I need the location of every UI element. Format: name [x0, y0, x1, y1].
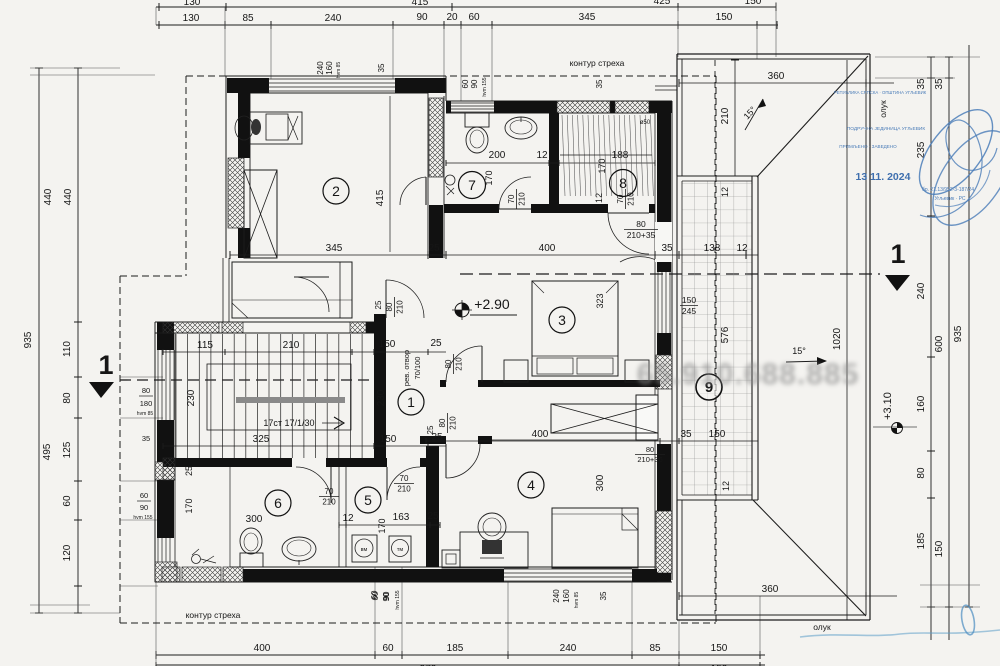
svg-text:25: 25	[428, 243, 440, 254]
dimension line top row1	[156, 6, 776, 8]
wall rooms56 north	[163, 458, 292, 467]
door room5 (leaf+arc)	[386, 467, 388, 500]
svg-text:345: 345	[579, 12, 596, 23]
svg-text:230: 230	[376, 389, 387, 406]
svg-text:150: 150	[934, 540, 945, 557]
dimension line top row2	[156, 24, 778, 26]
section line right (dash-dot)	[460, 273, 880, 275]
svg-text:12: 12	[720, 187, 730, 197]
svg-text:150: 150	[709, 429, 726, 440]
svg-text:150: 150	[716, 12, 733, 23]
svg-text:60: 60	[461, 79, 470, 88]
svg-text:210+35: 210+35	[627, 230, 656, 240]
svg-text:210: 210	[449, 416, 458, 430]
svg-text:hvm 155: hvm 155	[482, 77, 488, 96]
stairs railing box	[207, 364, 351, 430]
svg-text:90: 90	[416, 12, 428, 23]
door to terrace upper (arc)	[659, 222, 661, 262]
svg-text:210: 210	[720, 107, 731, 124]
svg-text:240: 240	[316, 61, 325, 75]
svg-text:150: 150	[379, 339, 396, 350]
svg-text:150: 150	[380, 434, 397, 445]
stamp ellipse 2	[917, 117, 1000, 239]
svg-text:160: 160	[916, 395, 927, 412]
svg-text:210: 210	[283, 340, 300, 351]
svg-text:15°: 15°	[742, 104, 759, 121]
svg-text:12: 12	[536, 150, 548, 161]
svg-text:440: 440	[43, 188, 54, 205]
svg-text:hvm 155: hvm 155	[395, 590, 401, 609]
roof dimension 360 top	[679, 82, 894, 84]
room6 partition line	[229, 467, 231, 567]
door label 70/210 room7	[507, 189, 527, 209]
bath dim line y162	[446, 162, 655, 164]
door nook (arc)	[294, 276, 329, 278]
svg-text:1020: 1020	[832, 327, 843, 350]
svg-text:400: 400	[532, 429, 549, 440]
svg-text:35: 35	[680, 429, 692, 440]
dimension line left inner	[77, 68, 79, 613]
svg-text:рев. отвор: рев. отвор	[402, 350, 411, 386]
svg-text:85: 85	[242, 13, 254, 24]
dimension line right col3	[968, 45, 970, 607]
roof top edge	[677, 53, 870, 55]
svg-text:935: 935	[23, 331, 34, 348]
desk room2	[250, 112, 302, 144]
bed room4	[552, 508, 638, 568]
svg-text:35: 35	[661, 243, 673, 254]
svg-text:400: 400	[254, 643, 271, 654]
svg-text:35: 35	[142, 434, 150, 443]
desk room4	[460, 532, 528, 568]
dimension line left outer 935	[38, 68, 40, 613]
svg-text:210+35: 210+35	[637, 455, 662, 464]
svg-text:120: 120	[62, 544, 73, 561]
svg-text:5: 5	[364, 492, 372, 508]
svg-text:600: 600	[934, 335, 945, 352]
svg-text:240: 240	[916, 282, 927, 299]
dryer room5	[389, 536, 411, 562]
nightstand room4	[442, 550, 460, 568]
door stair hall (arc)	[385, 280, 387, 318]
svg-text:hvm 85: hvm 85	[137, 411, 154, 417]
svg-text:70: 70	[400, 474, 409, 483]
svg-text:90: 90	[470, 79, 479, 88]
boiler room7	[445, 175, 455, 185]
door label 70/210 room8	[616, 189, 636, 209]
svg-text:240: 240	[552, 589, 561, 603]
svg-text:210: 210	[455, 357, 464, 371]
nightstand room3 right	[625, 360, 649, 382]
svg-text:35: 35	[595, 79, 604, 88]
svg-text:12: 12	[342, 513, 354, 524]
wall right mid	[657, 333, 671, 355]
svg-text:90: 90	[140, 503, 148, 512]
eave step line top right	[655, 89, 677, 91]
sink room7	[505, 117, 537, 139]
room circle 6	[265, 490, 291, 516]
sink room6	[282, 537, 316, 561]
svg-text:163: 163	[393, 512, 410, 523]
svg-text:4: 4	[527, 477, 535, 493]
wall right window	[657, 262, 671, 272]
svg-text:170: 170	[484, 170, 494, 185]
svg-text:200: 200	[489, 150, 506, 161]
roof bottom edge	[677, 619, 870, 621]
wardrobe room2 (X-box)	[244, 170, 277, 258]
svg-text:495: 495	[42, 443, 53, 460]
svg-text:170: 170	[184, 498, 194, 513]
washing machine room5	[352, 535, 377, 562]
svg-text:3: 3	[558, 312, 566, 328]
room circle 2	[323, 178, 349, 204]
svg-text:20: 20	[446, 12, 458, 23]
svg-text:150: 150	[682, 295, 696, 305]
svg-text:170: 170	[377, 518, 387, 533]
door room6 (leaf+arc)	[330, 467, 332, 503]
door label 80/210 corrA	[444, 354, 464, 374]
stamp signature swirl	[920, 120, 997, 217]
wall room5 east	[426, 446, 439, 567]
svg-text:110: 110	[62, 341, 73, 357]
svg-text:185: 185	[447, 643, 464, 654]
svg-text:210: 210	[397, 485, 411, 494]
terrace tile grid	[682, 181, 752, 495]
svg-text:325: 325	[253, 434, 270, 445]
svg-text:тм: тм	[397, 547, 404, 553]
svg-text:160: 160	[562, 589, 571, 603]
roof bottom dimension 360	[679, 595, 897, 597]
room circle 8	[610, 170, 637, 197]
svg-text:90: 90	[382, 592, 391, 601]
svg-text:60: 60	[468, 12, 480, 23]
svg-text:60: 60	[370, 590, 379, 599]
svg-text:35: 35	[934, 78, 945, 90]
svg-text:олук: олук	[878, 100, 888, 118]
svg-text:360: 360	[768, 71, 785, 82]
svg-text:400: 400	[539, 243, 556, 254]
svg-text:вм: вм	[361, 547, 368, 553]
wall room2 top	[226, 75, 446, 77]
svg-text:80: 80	[636, 219, 646, 229]
svg-text:415: 415	[412, 0, 429, 8]
wall bottom	[155, 581, 672, 583]
bottom extension lines	[155, 582, 157, 665]
svg-text:210: 210	[322, 498, 336, 507]
room circle 4	[518, 472, 544, 498]
svg-text:125: 125	[62, 441, 73, 458]
svg-text:hvm 155: hvm 155	[133, 515, 152, 521]
wall step (stair north)	[155, 321, 380, 323]
svg-text:Угљевик · РС: Угљевик · РС	[934, 196, 965, 202]
svg-text:35: 35	[599, 591, 608, 600]
closet8 hangers	[562, 115, 565, 196]
room2 dim 415	[389, 96, 391, 252]
wall corridor left (stair east)	[374, 314, 386, 336]
svg-text:360: 360	[762, 584, 779, 595]
svg-text:15°: 15°	[792, 346, 806, 356]
svg-text:210: 210	[518, 192, 527, 206]
door to terrace lower (open leaf)	[636, 395, 658, 440]
dimension line bottom row1	[156, 654, 765, 656]
svg-text:85: 85	[649, 643, 661, 654]
svg-text:60: 60	[62, 495, 73, 507]
room circle 1	[398, 389, 424, 415]
room circle 5	[355, 487, 381, 513]
wall 7-8 divider	[549, 113, 559, 213]
blue pen scribble bottom	[800, 630, 1000, 637]
stamp ellipse 1	[906, 97, 1000, 207]
svg-text:210: 210	[396, 300, 405, 314]
toilet room7	[465, 113, 489, 127]
door room2 (leaf and arc)	[425, 177, 427, 205]
svg-text:80: 80	[438, 418, 447, 427]
svg-text:8: 8	[619, 175, 627, 191]
svg-text:130: 130	[183, 13, 200, 24]
svg-text:ПРИМЉЕНО · ЗАВЕДЕНО: ПРИМЉЕНО · ЗАВЕДЕНО	[839, 144, 897, 149]
roof left edge lower	[676, 500, 678, 620]
svg-text:576: 576	[720, 326, 731, 343]
svg-text:35: 35	[916, 78, 927, 90]
svg-text:70: 70	[507, 194, 516, 203]
svg-text:13 11. 2024: 13 11. 2024	[856, 171, 911, 183]
svg-text:160: 160	[325, 61, 334, 75]
bed room2	[232, 262, 352, 318]
nook wall thin	[222, 258, 224, 322]
svg-text:180: 180	[140, 399, 153, 408]
roof dimension 210	[734, 60, 736, 176]
svg-text:138: 138	[704, 243, 721, 254]
corridor dim line y441	[426, 440, 758, 442]
svg-text:35: 35	[377, 63, 386, 72]
svg-text:415: 415	[375, 189, 386, 206]
svg-text:РЕПУБЛИКА СРПСКА · ОПШТИНА УГЉ: РЕПУБЛИКА СРПСКА · ОПШТИНА УГЉЕВИК	[834, 90, 927, 95]
stair dim line y352	[163, 351, 446, 353]
roof dimension 1020	[846, 60, 848, 620]
svg-text:12: 12	[594, 193, 604, 203]
roof hip diagonal top	[757, 56, 868, 177]
svg-text:1: 1	[98, 350, 113, 380]
svg-text:345: 345	[326, 243, 343, 254]
door label 80/210 corrB	[438, 413, 458, 433]
svg-text:323: 323	[595, 293, 605, 308]
room circle 7	[459, 172, 486, 199]
svg-text:70: 70	[325, 487, 334, 496]
wall corridor B	[420, 436, 446, 444]
left extension lines	[30, 67, 120, 69]
wardrobe corridor (X-box)	[551, 404, 658, 433]
svg-text:115: 115	[197, 340, 213, 351]
dim line y255 (345/25/400/35/138/12)	[230, 254, 758, 256]
svg-text:олук: олук	[813, 622, 831, 632]
svg-text:80: 80	[646, 445, 654, 454]
wall left lower	[154, 322, 156, 582]
svg-text:935: 935	[953, 325, 964, 342]
svg-text:425: 425	[654, 0, 671, 7]
extension lines top	[155, 7, 157, 25]
svg-text:25: 25	[427, 511, 439, 522]
section line left (dash-dot)	[120, 379, 372, 381]
svg-text:440: 440	[63, 188, 74, 205]
stair dim line y446	[163, 445, 446, 447]
dimension line right col2	[948, 57, 950, 640]
wall bathroom7 south	[444, 204, 499, 213]
svg-text:hvm 85: hvm 85	[574, 592, 580, 609]
svg-text:80: 80	[444, 359, 453, 368]
svg-text:ПОДРУЧНА ЈЕДИНИЦА УГЉЕВИК: ПОДРУЧНА ЈЕДИНИЦА УГЉЕВИК	[847, 126, 926, 132]
svg-text:6: 6	[274, 495, 282, 511]
wall closet8 south	[559, 204, 608, 213]
eaves contour dashed outline	[186, 75, 716, 77]
dimension line bottom row2 (clipped)	[156, 664, 765, 666]
nightstand room3 left	[504, 360, 528, 382]
svg-text:60: 60	[140, 491, 148, 500]
svg-text:70/100: 70/100	[413, 357, 422, 380]
svg-text:+2.90: +2.90	[474, 296, 510, 312]
door corridorB to room4 (leaf+arc)	[445, 444, 447, 478]
svg-text:80: 80	[62, 392, 73, 404]
wall room2 right	[427, 93, 429, 258]
wall right upper	[657, 101, 671, 222]
svg-text:185: 185	[916, 532, 927, 549]
svg-text:12: 12	[721, 481, 731, 491]
svg-text:80: 80	[142, 386, 150, 395]
bed room3	[532, 281, 618, 376]
svg-text:hvm 85: hvm 85	[336, 62, 342, 79]
svg-text:150: 150	[745, 0, 762, 7]
svg-text:1: 1	[407, 394, 415, 410]
door bathroom7 (leaf+arc)	[499, 208, 531, 210]
dimension line right col1	[930, 57, 932, 640]
roof right edge	[869, 54, 871, 620]
wall bathroom block top	[445, 76, 447, 101]
wall rooms5-6 divider	[338, 467, 340, 567]
svg-text:150: 150	[711, 643, 728, 654]
door label 80/210 hall top	[385, 297, 405, 317]
svg-text:300: 300	[595, 474, 606, 491]
svg-text:130: 130	[184, 0, 201, 8]
svg-text:1: 1	[890, 239, 905, 269]
svg-text:17ст 17/1/30: 17ст 17/1/30	[263, 418, 314, 428]
svg-text:контур стреха: контур стреха	[186, 610, 241, 620]
svg-text:+3.10: +3.10	[882, 392, 894, 420]
terrace border	[676, 176, 678, 500]
svg-text:7: 7	[468, 177, 476, 193]
svg-text:245: 245	[682, 306, 696, 316]
svg-text:25: 25	[374, 300, 383, 309]
svg-text:60: 60	[382, 643, 394, 654]
svg-text:ø50: ø50	[640, 120, 651, 126]
door closet8 (leaf+arc)	[608, 212, 649, 214]
watermark phone number	[637, 358, 860, 391]
room circle 9	[696, 374, 722, 400]
toilet room6	[240, 553, 263, 567]
svg-text:235: 235	[916, 141, 927, 158]
svg-text:80: 80	[916, 467, 927, 479]
level mark +2.90	[455, 303, 469, 317]
svg-text:25: 25	[430, 338, 442, 349]
svg-text:240: 240	[560, 643, 577, 654]
room circle 3	[549, 307, 575, 333]
wall room2 left	[225, 76, 227, 258]
roof hip diagonal bottom	[753, 500, 866, 616]
svg-text:230: 230	[186, 389, 197, 406]
roof left edge upper	[676, 54, 678, 176]
door corridorA to room3 (leaf+arc)	[481, 346, 483, 382]
svg-text:300: 300	[246, 514, 263, 525]
svg-text:240: 240	[325, 13, 342, 24]
svg-text:25: 25	[184, 466, 194, 476]
wall corridor A	[440, 380, 446, 387]
svg-text:2: 2	[332, 183, 340, 199]
svg-text:12: 12	[736, 243, 748, 254]
right extension lines	[875, 56, 980, 58]
svg-text:80: 80	[385, 302, 394, 311]
terrace dashed axis	[714, 60, 716, 614]
room5 dim line y525	[339, 524, 440, 526]
shower fitting room6	[192, 555, 201, 564]
svg-text:контур стреха: контур стреха	[570, 58, 625, 68]
wall right lower	[657, 444, 671, 511]
stairs treads	[175, 334, 177, 458]
svg-text:65.910.688.885: 65.910.688.885	[637, 358, 860, 391]
